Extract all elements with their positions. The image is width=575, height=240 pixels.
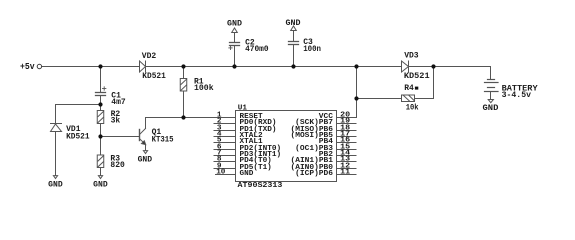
svg-text:10: 10 [216,168,226,176]
svg-text:GND: GND [286,19,301,28]
svg-text:KD521: KD521 [142,72,166,81]
svg-text:470m0: 470m0 [245,45,269,54]
svg-text:AT90S2313: AT90S2313 [238,182,283,190]
svg-text:GND: GND [483,104,499,113]
svg-text:4m7: 4m7 [111,98,126,107]
svg-text:3-4.5v: 3-4.5v [502,91,532,100]
svg-text:820: 820 [110,161,125,170]
svg-text:KD521: KD521 [66,133,90,142]
svg-text:GND: GND [227,20,242,29]
svg-text:VD2: VD2 [142,52,157,61]
svg-text:U1: U1 [238,104,248,112]
svg-text:KD521: KD521 [404,72,430,81]
svg-text:100n: 100n [303,45,321,54]
svg-text:11: 11 [340,168,350,176]
svg-text:GND: GND [138,156,153,165]
svg-text:10k: 10k [406,104,419,113]
svg-text:+5v: +5v [20,62,35,72]
svg-text:(ICP)PD6: (ICP)PD6 [295,170,333,178]
svg-text:R4: R4 [404,84,414,93]
svg-text:GND: GND [93,180,108,189]
svg-text:3k: 3k [111,116,121,125]
svg-text:GND: GND [48,181,63,190]
svg-text:100k: 100k [194,84,214,93]
svg-text:KT315: KT315 [152,136,174,145]
svg-text:VD3: VD3 [404,51,419,60]
svg-text:GND: GND [240,170,254,178]
